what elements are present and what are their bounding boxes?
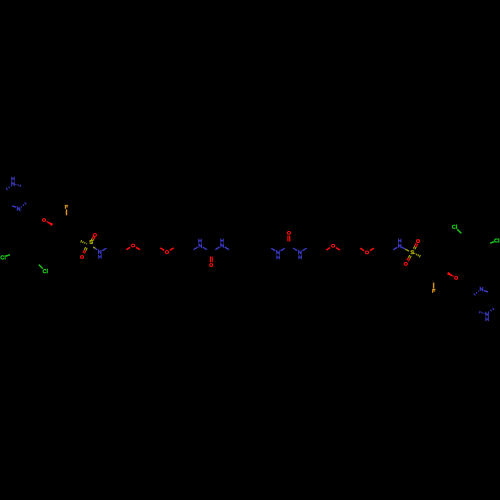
imidazole N3-C4 bond [12, 206, 16, 207]
PEG O1 left bond [126, 247, 130, 249]
right sulfonyl S label [411, 251, 414, 254]
right PEG O2 left bond [336, 248, 340, 250]
right urea N1-H label [299, 251, 302, 254]
right imidazole N1-C2 hashed bond [483, 313, 485, 314]
imidazole N3 label [17, 207, 20, 210]
chlorine Cl label [1, 256, 5, 260]
right sulfonyl lower O label [404, 263, 407, 266]
right PEG O2 label [332, 244, 335, 247]
urea N2 left bond [215, 247, 219, 250]
urea N2 right bond [225, 247, 229, 250]
right urea O label [287, 232, 290, 235]
ether O wedge bond [46, 221, 53, 226]
PEG O1 right bond [136, 247, 140, 249]
fluorine bond [66, 209, 68, 215]
right sulfonyl upper O label [417, 240, 420, 243]
fluorine F label [65, 205, 67, 208]
S=O upper double bond [92, 239, 95, 241]
right urea N2-H label [277, 251, 280, 254]
right chlorine Cl2 bond [457, 229, 461, 233]
right ether O wedge bond [447, 272, 454, 277]
urea C=O double bond [209, 257, 211, 263]
sulfonyl S label [90, 240, 93, 243]
urea N1 left bond [194, 247, 198, 250]
right chlorine Cl2 label [452, 225, 456, 229]
urea N1 right bond [203, 247, 207, 250]
right urea C=O double bond [289, 236, 291, 242]
right urea N1 left bond [303, 248, 307, 251]
chlorine Cl bond [6, 255, 10, 257]
right fluorine F label [433, 289, 435, 292]
chlorine Cl2 label [43, 269, 47, 273]
sulfonyl upper O label [93, 234, 96, 237]
PEG O2 right bond [170, 248, 174, 250]
right sulfonamide N-H label [398, 244, 401, 247]
right imidazole N3-C4 bond [484, 291, 488, 292]
PEG O1 label [132, 244, 135, 247]
right S=O upper double bond [415, 247, 416, 250]
PEG O2 left bond [160, 248, 164, 250]
urea N2-H label [221, 244, 224, 247]
right chlorine Cl bond [490, 242, 494, 244]
right sulfonamide N-CH2 bond [393, 247, 397, 249]
right S-N bond [402, 247, 406, 249]
right imidazole N3-C3a hashed bond [477, 290, 480, 293]
imidazole N1-H label [12, 177, 14, 180]
right PEG O1 right bond [360, 248, 364, 250]
right urea N1 right bond [293, 248, 297, 251]
right ether O label [455, 277, 458, 280]
urea N1-H label [199, 244, 202, 247]
right PEG O1 label [366, 251, 369, 254]
right fluorine bond [433, 283, 435, 289]
right chlorine Cl label [495, 239, 499, 243]
right urea N2 right bond [271, 248, 275, 251]
PEG O2 label [166, 251, 169, 254]
imidazole N1-C2 hashed bond [15, 184, 17, 185]
right imidazole N1-H label [486, 318, 488, 321]
ether O label [43, 219, 46, 222]
S=O lower double bond [84, 247, 85, 250]
right urea N2 left bond [281, 248, 285, 251]
sulfonyl lower O label [81, 256, 84, 259]
chlorine Cl2 bond [39, 265, 43, 269]
right PEG O2 right bond [326, 248, 330, 250]
right PEG O1 left bond [370, 248, 374, 250]
urea O label [210, 264, 213, 267]
S-aryl hashed bond [85, 242, 87, 245]
imidazole N3-C3a hashed bond [20, 205, 23, 208]
S-N bond [93, 247, 95, 248]
right imidazole N3 label [480, 288, 483, 291]
imidazole N1-C5 hashed bond [10, 184, 13, 187]
right S-aryl hashed bond [414, 252, 416, 255]
sulfonamide N-CH2 bond [102, 248, 106, 250]
sulfonamide N-H label [99, 250, 102, 253]
right S=O lower double bond [408, 255, 409, 258]
right imidazole N1-C5 hashed bond [487, 311, 490, 314]
